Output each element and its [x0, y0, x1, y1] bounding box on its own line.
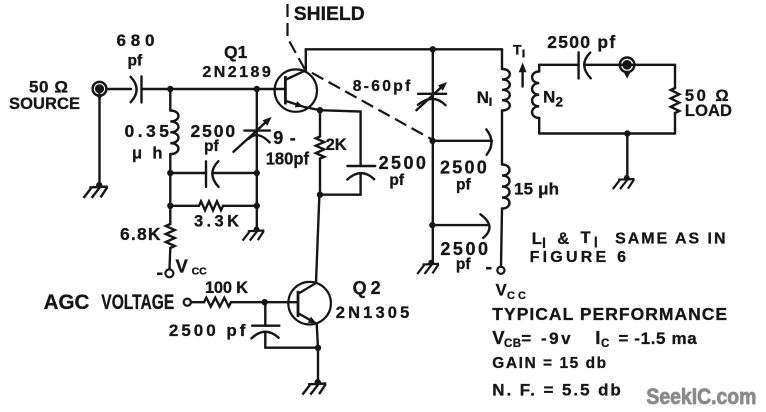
- svg-text:C: C: [601, 338, 609, 350]
- svg-text:AGC: AGC: [44, 290, 90, 314]
- svg-text:SeekIC.com: SeekIC.com: [646, 384, 756, 409]
- svg-text:I: I: [595, 327, 600, 348]
- svg-text:V: V: [496, 281, 507, 299]
- svg-text:VOLTAGE: VOLTAGE: [101, 290, 174, 314]
- svg-text:3.3K: 3.3K: [194, 212, 239, 230]
- svg-text:SHIELD: SHIELD: [294, 3, 365, 25]
- svg-text:μ h: μ h: [132, 145, 163, 163]
- svg-text:CB: CB: [504, 338, 521, 350]
- svg-text:2500 pf: 2500 pf: [169, 321, 246, 340]
- svg-text:pf: pf: [204, 138, 219, 155]
- svg-text:SAME AS IN: SAME AS IN: [615, 231, 725, 248]
- svg-text:2: 2: [556, 94, 564, 109]
- svg-text:15 μh: 15 μh: [514, 179, 559, 198]
- svg-text:pf: pf: [389, 172, 404, 189]
- svg-text:&: &: [557, 230, 569, 248]
- svg-text:N: N: [543, 87, 555, 106]
- svg-text:TYPICAL PERFORMANCE: TYPICAL PERFORMANCE: [492, 304, 727, 324]
- svg-text:L: L: [532, 230, 542, 248]
- svg-text:2500 pf: 2500 pf: [547, 32, 615, 52]
- svg-text:Q1: Q1: [224, 42, 248, 62]
- svg-text:= -9v: = -9v: [521, 329, 571, 348]
- svg-text:V: V: [176, 256, 189, 277]
- svg-text:100 K: 100 K: [205, 279, 248, 297]
- svg-text:680: 680: [117, 31, 155, 50]
- svg-text:SOURCE: SOURCE: [9, 95, 80, 113]
- svg-text:6.8K: 6.8K: [120, 224, 161, 244]
- svg-text:LOAD: LOAD: [685, 102, 732, 120]
- svg-text:pf: pf: [456, 177, 471, 194]
- svg-text:CC: CC: [192, 266, 208, 278]
- svg-text:N: N: [477, 88, 489, 107]
- svg-text:= -1.5 ma: = -1.5 ma: [618, 329, 697, 348]
- svg-text:pf: pf: [456, 256, 471, 273]
- svg-text:180pf: 180pf: [266, 148, 309, 168]
- svg-text:50 Ω: 50 Ω: [29, 78, 68, 97]
- svg-text:GAIN = 15 db: GAIN = 15 db: [492, 355, 606, 372]
- svg-text:Q2: Q2: [353, 278, 381, 298]
- svg-text:T: T: [581, 229, 591, 247]
- svg-text:2K: 2K: [326, 136, 347, 154]
- svg-text:pf: pf: [128, 53, 143, 70]
- svg-text:T: T: [513, 42, 522, 58]
- svg-text:0.35: 0.35: [125, 121, 170, 141]
